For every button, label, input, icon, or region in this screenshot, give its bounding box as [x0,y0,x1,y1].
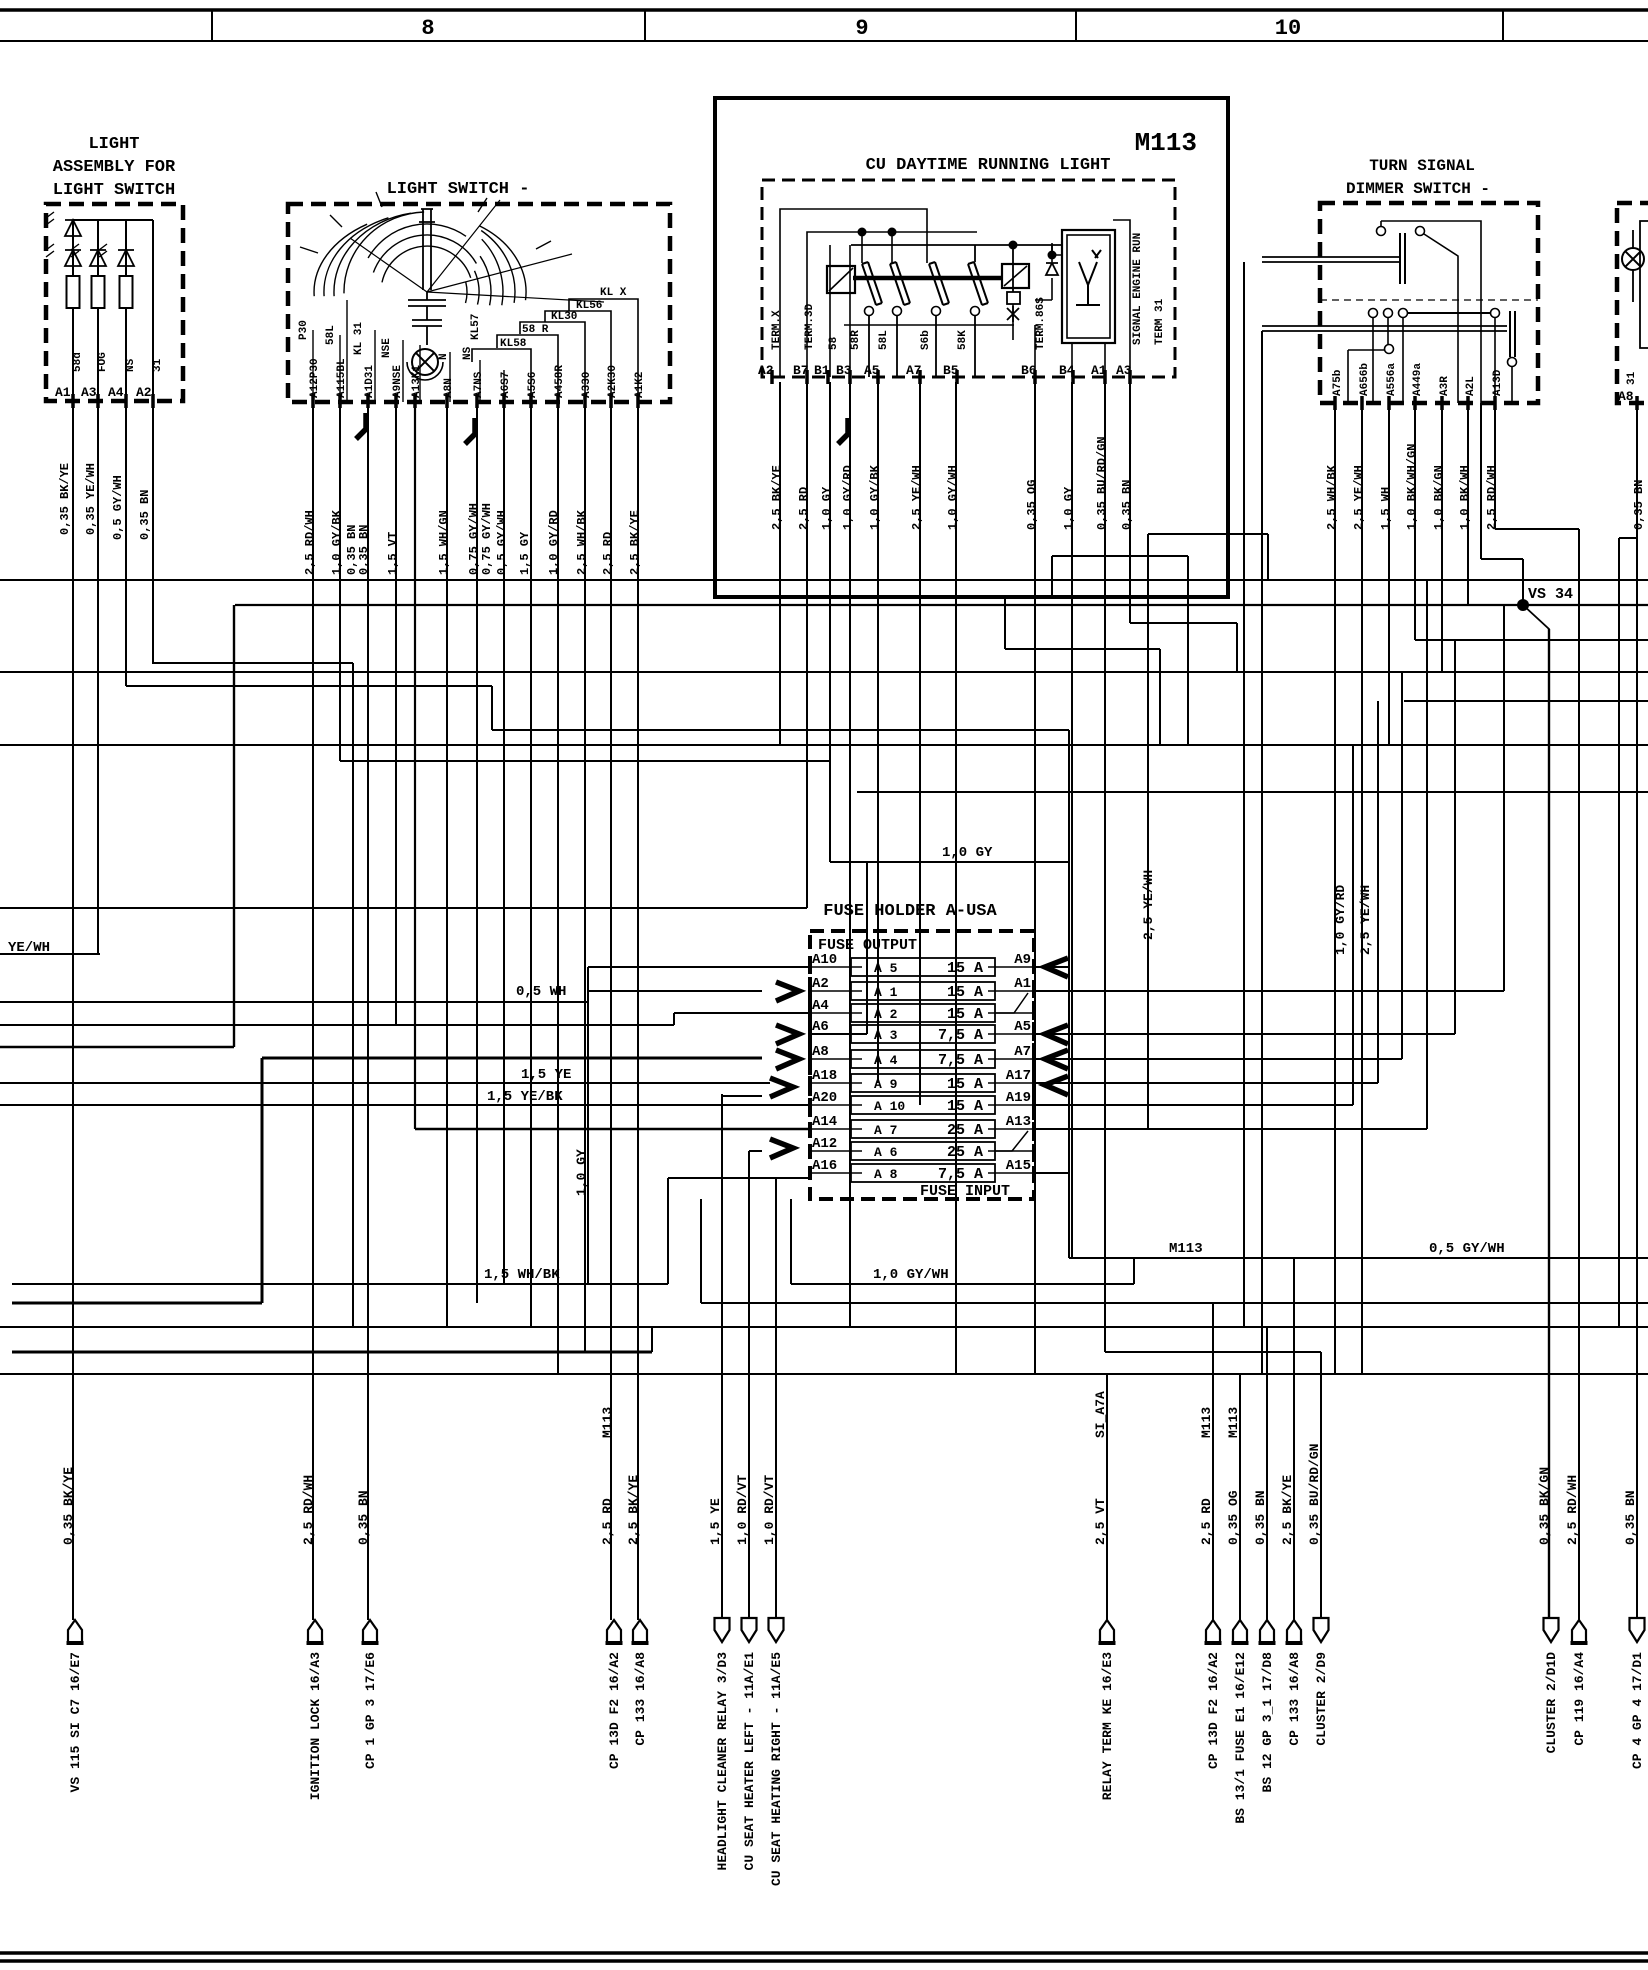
svg-text:1,0 GY: 1,0 GY [1062,486,1076,530]
wire bold to VS34 riser [0,1046,234,1048]
svg-text:1,5 WH/BK: 1,5 WH/BK [484,1267,560,1283]
wire step KL30 [520,322,585,402]
wire link x722 [722,1095,762,1097]
svg-text:2,5 RD/WH: 2,5 RD/WH [303,510,317,575]
svg-text:1,0 GY/RD: 1,0 GY/RD [547,510,561,575]
splice into A8 [776,1050,799,1069]
svg-text:M113: M113 [1169,1241,1203,1257]
svg-text:B7: B7 [793,363,809,378]
wire riser A6 feed [866,862,868,1034]
svg-text:A10: A10 [812,952,837,968]
fuse row line [988,990,1034,992]
svg-text:P30: P30 [298,320,310,340]
junction [858,228,867,237]
wire x1148 [1147,534,1149,1129]
wire 2.5 RD to CP 13D [1212,1303,1214,1620]
fuse A19 output [1034,1104,1353,1106]
svg-text:0,35 BN: 0,35 BN [138,490,152,540]
node VS 34 [1517,599,1529,611]
svg-text:DIMMER SWITCH -: DIMMER SWITCH - [1346,180,1490,198]
wire step A3 [1130,622,1237,624]
wire 1.5 WH/BK [12,1283,668,1285]
wire x1005 [1004,597,1006,649]
header bottom line [0,40,1648,42]
fuse pin tick left [808,1098,812,1112]
wire 2.5 RD/WH to ignition lock [312,402,314,1620]
rotary switch radial ticks [300,192,551,253]
wire fuse input drop [700,1199,702,1303]
fuse A9 output [1034,966,1069,968]
svg-text:A20: A20 [812,1090,837,1106]
svg-text:ASSEMBLY FOR: ASSEMBLY FOR [53,158,176,177]
svg-text:0,75 GY/WH: 0,75 GY/WH [467,503,481,575]
fuse pin tick right [1032,1144,1036,1158]
wire to fuse A2 [588,990,762,992]
wire y1374 [0,1373,1648,1375]
svg-text:B3: B3 [836,363,852,378]
svg-text:KL58: KL58 [500,338,527,350]
LED arrows [46,244,54,257]
wire 0.5 WH [0,1001,588,1003]
svg-text:0,5 GY/WH: 0,5 GY/WH [495,510,509,575]
wire A2L drop [1480,403,1482,559]
fuse pin tick right [1032,1122,1036,1136]
svg-text:KL X: KL X [600,287,627,299]
wire A4 0.5 GY/WH [125,220,127,686]
fuse row line [988,1012,1034,1014]
svg-text:1,0 GY/BK: 1,0 GY/BK [330,509,344,575]
svg-text:CU SEAT HEATER LEFT - 11A/E1: CU SEAT HEATER LEFT - 11A/E1 [742,1652,757,1871]
wire splice x477 [465,418,475,444]
pin tick [1033,370,1037,384]
svg-text:IGNITION LOCK 16/A3: IGNITION LOCK 16/A3 [308,1652,323,1800]
wire 1.5 VT [395,402,397,1025]
svg-text:VS 115 SI C7 16/E7: VS 115 SI C7 16/E7 [68,1652,83,1792]
svg-text:A 3: A 3 [874,1028,898,1043]
svg-text:KL30: KL30 [551,311,577,323]
svg-text:1,5 YE: 1,5 YE [521,1067,571,1083]
connector pin [1630,1618,1645,1642]
svg-text:58K: 58K [957,330,969,350]
wire y1303 [701,1302,1648,1304]
svg-text:0,35 BN: 0,35 BN [1623,1490,1638,1545]
wire riser x1504 [1503,605,1505,991]
wire x1619 [1618,538,1620,1327]
svg-text:1,5 GY: 1,5 GY [518,531,532,575]
fuse pin tick left [808,960,812,974]
wire 1.0 RD/VT to seat heating right [775,1178,777,1620]
junction [888,228,897,237]
svg-text:TERM 31: TERM 31 [1154,298,1166,345]
svg-text:0,35 BU/RD/GN: 0,35 BU/RD/GN [1095,436,1109,530]
svg-text:2,5 VT: 2,5 VT [1093,1498,1108,1545]
wire from A2 light assembly [152,662,353,664]
wire 1.0 BK/WH [1467,403,1469,605]
indicator icon [1076,250,1101,305]
svg-text:1,0 GY: 1,0 GY [820,486,834,530]
svg-text:FOG: FOG [97,352,109,372]
rotary switch pointer lines [350,200,604,302]
pin tick [636,394,640,408]
wire y534 [1148,533,1268,535]
svg-text:1,0 BK/GN: 1,0 BK/GN [1432,465,1446,530]
svg-text:A15: A15 [1006,1158,1031,1174]
wire bold to fuse A8 [262,1057,762,1060]
svg-text:NS: NS [462,346,474,360]
svg-text:N: N [438,353,450,360]
wire 0.35 BN far right [1636,403,1638,1620]
fuse A2 15 A [851,1004,995,1022]
svg-text:A9: A9 [1014,952,1031,968]
link [1348,345,1389,403]
svg-text:LIGHT SWITCH: LIGHT SWITCH [53,181,175,200]
svg-text:A 9: A 9 [874,1077,898,1092]
wire y908 [0,907,807,909]
fuse A2 to A1 link [995,993,1028,1013]
wire 1.0 GY/WH from B5 [955,382,957,1374]
thermal contact mark [1007,306,1019,322]
fuse pin tick left [808,1144,812,1158]
svg-text:FUSE HOLDER A-USA: FUSE HOLDER A-USA [823,902,997,921]
pin tick [1493,396,1497,410]
wire riser x1378 [1377,701,1379,1083]
pin tick [151,394,155,408]
pin tick [770,370,774,384]
svg-text:A1: A1 [55,385,71,400]
svg-text:YE/WH: YE/WH [8,940,50,956]
wire from dimmer busbar upper [1243,262,1245,1327]
wire 0.75 GY/WH b [503,402,505,1284]
svg-text:2,5 RD: 2,5 RD [601,532,615,575]
svg-text:1,0 GY/RD: 1,0 GY/RD [1333,885,1348,955]
svg-text:A115BL: A115BL [336,358,348,398]
wire drop x668 [667,1178,669,1284]
svg-text:A556a: A556a [1386,363,1398,396]
wire y761 [340,760,830,762]
svg-text:A656b: A656b [1359,363,1371,396]
wire x1188 [1187,556,1189,745]
svg-text:1,0 RD/VT: 1,0 RD/VT [762,1475,777,1545]
page border bottom line 1 [0,1951,1648,1955]
svg-text:A 8: A 8 [874,1167,898,1182]
pin tick [583,394,587,408]
connector pocket [1260,1620,1274,1643]
svg-text:0,35 BN: 0,35 BN [357,525,371,575]
svg-text:25 A: 25 A [947,1122,983,1139]
wire 1.0 GY from B4 [1071,382,1073,1258]
wire step KL56 [545,311,611,402]
svg-text:A458R: A458R [554,365,566,398]
wire step KL58 [472,349,531,402]
wire 0.35 OG from B6 [1034,382,1036,1374]
wire 2.5 WH/BK [584,402,586,1352]
svg-text:A4: A4 [812,998,829,1014]
wire to fuse A10 [588,966,810,968]
fuse row line [988,1128,1034,1130]
contact [1377,227,1386,236]
rotary switch arc fan [314,224,367,296]
wire 0.35 BN to BS 12 [1266,1327,1268,1620]
connector pocket [1287,1620,1301,1643]
svg-text:CLUSTER 2/D9: CLUSTER 2/D9 [1314,1652,1329,1746]
dimmer contact upper [1381,221,1481,403]
svg-text:S6b: S6b [920,330,932,350]
fuse row line [810,1082,862,1084]
svg-text:LIGHT SWITCH -: LIGHT SWITCH - [387,180,530,199]
svg-text:0,35 BN: 0,35 BN [1253,1490,1268,1545]
svg-text:TERM.X: TERM.X [771,310,783,350]
wire 2.5 BK/YE to CP 133 [1293,1258,1295,1620]
svg-text:0,75 GY/WH: 0,75 GY/WH [480,503,494,575]
svg-text:CP 4 GP 4 17/D1: CP 4 GP 4 17/D1 [1630,1652,1645,1769]
pin tick [1466,396,1470,410]
contact bar lower [1510,311,1515,357]
fuse row line [810,966,862,968]
splice into A12 [770,1139,793,1158]
connector pocket [308,1620,322,1643]
wire 2.5 RD from B7 [806,382,808,908]
wire 1.0 GY from B1 [829,382,831,862]
fuse row line [810,990,862,992]
wire 2.5 BK/YE from A2 [779,382,781,745]
svg-text:1,0 BK/WH/GN: 1,0 BK/WH/GN [1405,444,1419,530]
wire splice x368 [356,413,366,439]
wire 1.0 GY drop [587,967,589,1284]
svg-text:0,35 OG: 0,35 OG [1025,480,1039,530]
wire to fuse A4 [0,1024,674,1026]
pin tick [805,370,809,384]
svg-text:2,5 YE/WH: 2,5 YE/WH [1141,870,1156,940]
wire 1.5 YE to headlight cleaner relay [721,1094,723,1620]
fuse A7 output [1034,1058,1402,1060]
wire riser x1353 [1352,745,1354,1105]
wire jog A4 [673,1013,675,1025]
wire to fuse A12 [749,1150,762,1152]
diode [65,250,81,266]
contact [1399,309,1408,318]
svg-text:A13D: A13D [1492,369,1504,396]
svg-text:2,5 RD: 2,5 RD [797,487,811,530]
svg-text:CP 133 16/A8: CP 133 16/A8 [633,1652,648,1746]
svg-text:58 R: 58 R [522,324,549,336]
wire 1.0 GY/RD [557,402,559,1374]
wire y745 [0,744,1648,746]
wire y640 [1415,639,1648,641]
svg-text:RELAY TERM KE 16/E3: RELAY TERM KE 16/E3 [1100,1652,1115,1800]
svg-text:0,35 BK/YE: 0,35 BK/YE [58,463,72,535]
contact [1385,345,1394,354]
svg-text:A18: A18 [812,1068,837,1084]
pin tick [848,370,852,384]
pin tick [1128,370,1132,384]
svg-text:1,0 GY/RD: 1,0 GY/RD [841,465,855,530]
svg-text:A 1: A 1 [874,985,898,1000]
fuse pin tick right [1032,984,1036,998]
pin tick [918,370,922,384]
svg-text:VS 34: VS 34 [1528,586,1573,603]
contact pivot [893,307,902,316]
fuse pin tick left [808,984,812,998]
page border bottom line 2 [0,1959,1648,1963]
fuse A7 25 A [851,1120,995,1138]
svg-text:A7NS: A7NS [473,371,485,398]
fuse pin tick right [1032,960,1036,974]
wire terminal 31 bracket [1640,221,1648,348]
svg-text:A2K30: A2K30 [607,365,619,398]
wire 1.5 WH/GN [446,402,448,1327]
wire 0.75 GY/WH a [476,402,478,1303]
wire drop fuse input [790,1199,792,1284]
pin tick [124,394,128,408]
wire [97,266,99,276]
pin tick [394,394,398,408]
wire x1052 [1051,556,1053,597]
svg-text:1,0 GY: 1,0 GY [942,845,993,861]
splice into A6 [776,1025,799,1044]
svg-text:CU SEAT HEATING RIGHT - 11A/E5: CU SEAT HEATING RIGHT - 11A/E5 [769,1652,784,1886]
svg-text:TERM.3D: TERM.3D [804,303,816,350]
wire riser x1069 [1068,730,1070,1258]
connector pocket [607,1620,621,1643]
fuse pin tick left [808,1122,812,1136]
fuse A8 7,5 A [851,1164,995,1182]
wire y672 [0,671,1648,673]
svg-text:1,0 RD/VT: 1,0 RD/VT [735,1475,750,1545]
svg-text:58L: 58L [325,325,337,345]
pin tick [1071,370,1075,384]
wire 1.0 BK/WH/GN [1414,403,1416,640]
rotary switch shaft [419,209,435,290]
svg-text:A 7: A 7 [874,1123,897,1138]
fuse A1 output [1034,990,1504,992]
svg-text:1,5 WH/GN: 1,5 WH/GN [437,510,451,575]
wire splice B3 [838,418,848,444]
wire 1.0 GY/RD from B3 [849,382,851,1327]
pin tick [96,394,100,408]
svg-text:SIGNAL ENGINE RUN: SIGNAL ENGINE RUN [1132,233,1144,345]
fuse row line [810,1058,862,1060]
svg-text:A 6: A 6 [874,1145,898,1160]
wire y792 [857,791,1648,793]
svg-text:58: 58 [828,336,840,350]
diode [118,250,134,266]
wire 1.0 GY/WH [791,1283,1134,1285]
wire x415 [414,402,416,1129]
fuse A6 feed right [810,1033,867,1035]
wire A1 0.35 BK/YE [72,220,74,1620]
fuse row line [988,1172,1034,1174]
fuse A10 15 A [851,1096,995,1114]
svg-text:A3R: A3R [1439,376,1451,396]
svg-text:58R: 58R [850,330,862,350]
wire into VS 34 [1522,559,1524,605]
svg-text:2,5 YE/WH: 2,5 YE/WH [910,465,924,530]
contact square [1007,292,1020,304]
fuse pin tick right [1032,1027,1036,1041]
wire jog far right [1619,537,1637,539]
svg-text:0,35 BK/YE: 0,35 BK/YE [61,1467,76,1545]
svg-text:CLUSTER 2/D1D: CLUSTER 2/D1D [1544,1652,1559,1754]
fuse row line [988,1058,1034,1060]
fuse pin tick right [1032,1098,1036,1112]
svg-text:A449a: A449a [1412,363,1424,396]
wire [125,266,127,276]
fuse pin tick left [808,1006,812,1020]
svg-text:M113: M113 [1226,1407,1241,1438]
svg-text:10: 10 [1275,16,1301,41]
svg-text:15 A: 15 A [947,960,983,977]
wire y1352 left bold [12,1351,652,1354]
pin tick [71,394,75,408]
wire 2.5 YE/WH from A7 [919,382,921,1105]
wire 0.35 BU/RD/GN to cluster [1320,1352,1322,1620]
svg-text:A2: A2 [136,385,152,400]
fuse A9 15 A [851,1074,995,1092]
fuse A15 drop [1068,1173,1070,1258]
fuse row line [810,1104,862,1106]
svg-text:1,0 BK/WH: 1,0 BK/WH [1458,465,1472,530]
wire 2.5 YE/WH [1361,403,1363,1374]
fuse pin tick left [808,1027,812,1041]
splice into A18 [770,1078,793,1097]
fuse A5 output [1034,1033,1455,1035]
connector pocket [633,1620,647,1643]
wire y556 [1052,555,1188,557]
svg-text:BS 13/1 FUSE E1 16/E12: BS 13/1 FUSE E1 16/E12 [1233,1652,1248,1824]
fuse pin tick left [808,1052,812,1066]
CU daytime running light inner box [762,180,1175,377]
fuse A6 25 A [851,1142,995,1160]
svg-text:2,5 BK/YE: 2,5 BK/YE [628,510,642,575]
pin tick [338,394,342,408]
svg-text:7,5 A: 7,5 A [938,1027,983,1044]
wire x1160 [1159,649,1161,745]
svg-text:1,0 GY/WH: 1,0 GY/WH [873,1267,949,1283]
wire riser to VS 34 bus [233,605,235,1047]
svg-text:0,5 GY/WH: 0,5 GY/WH [111,475,125,540]
connector pin [742,1618,757,1642]
svg-text:TURN SIGNAL: TURN SIGNAL [1369,157,1475,175]
fuse pin tick right [1032,1052,1036,1066]
svg-text:CP 1 GP 3 17/E6: CP 1 GP 3 17/E6 [363,1652,378,1769]
svg-text:15 A: 15 A [947,1076,983,1093]
svg-text:0,35 BN: 0,35 BN [356,1490,371,1545]
wire y649 step [1005,648,1160,650]
svg-text:A3: A3 [81,385,97,400]
svg-text:A 5: A 5 [874,961,898,976]
svg-text:A1K2: A1K2 [634,372,646,398]
wire 0.35 BK/GN to cluster [1548,629,1550,1620]
lamp shade [407,362,443,380]
wire bold to fuse A14 [415,1128,810,1131]
wire y701 [1404,700,1648,702]
svg-text:KL 31: KL 31 [353,322,365,355]
fuse row line [988,1104,1034,1106]
svg-text:TERM.86S: TERM.86S [1035,297,1047,350]
svg-text:A13: A13 [1006,1114,1031,1130]
svg-text:15 A: 15 A [947,1006,983,1023]
pin tick [826,370,830,384]
wire x1268 [1267,534,1269,580]
wire 0.35 BU/RD/GN from A1 [1104,382,1106,1352]
wire riser x1402 [1401,672,1403,1059]
svg-text:31: 31 [1626,371,1638,385]
fuse pin tick right [1032,1076,1036,1090]
header grid tick [1075,10,1077,41]
fuse pin tick left [808,1166,812,1180]
LED arrows [46,212,54,225]
wire [72,308,74,401]
